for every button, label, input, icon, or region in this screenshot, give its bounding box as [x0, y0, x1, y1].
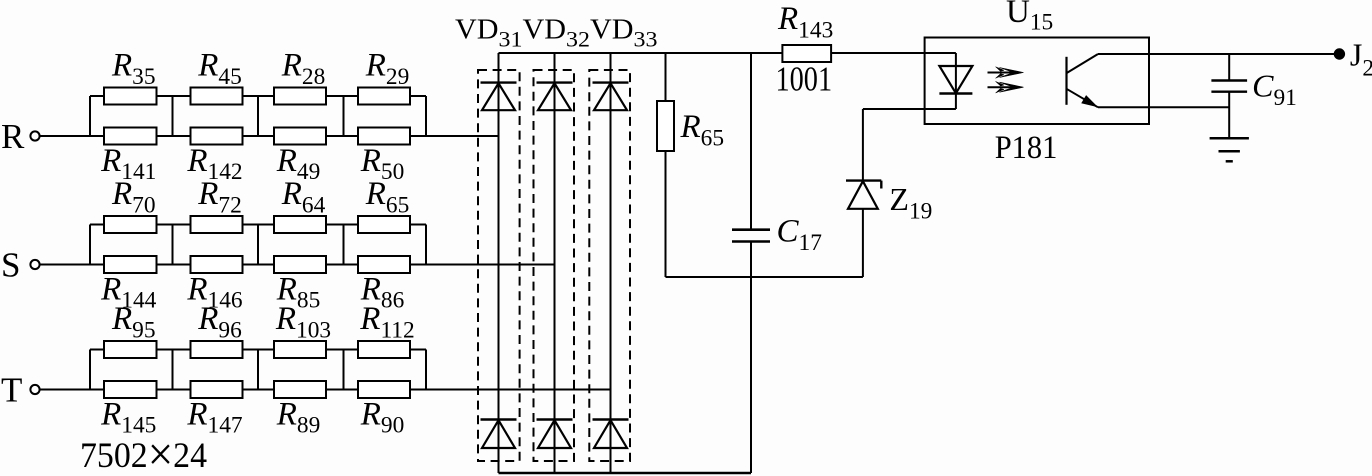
svg-text:P181: P181 [995, 130, 1058, 166]
svg-text:1001: 1001 [776, 60, 833, 99]
svg-text:R: R [1, 117, 25, 156]
svg-text:T: T [1, 371, 22, 410]
svg-text:S: S [1, 246, 20, 285]
svg-text:7502×24: 7502×24 [80, 428, 207, 476]
